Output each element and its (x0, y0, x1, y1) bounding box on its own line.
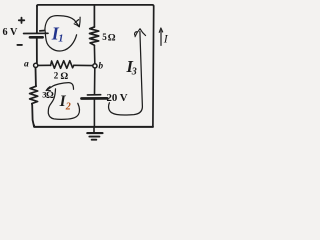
wire bottom rail to ground (93, 127, 95, 132)
wire bottom rail (34, 125, 153, 127)
current arrow I (top right) (160, 31, 162, 46)
battery 20V short plate (87, 94, 100, 96)
svg-text:2: 2 (54, 71, 59, 81)
loop arrow I3 head (135, 29, 146, 37)
loop arrow I2 body (48, 89, 79, 119)
wire right side (152, 6, 155, 126)
svg-text:a: a (24, 59, 29, 69)
svg-text:5: 5 (102, 32, 107, 42)
loop arrow I1 bottom arc (45, 32, 76, 51)
svg-text:3: 3 (131, 67, 137, 78)
wire node a to 2-ohm resistor (38, 64, 51, 66)
svg-text:b: b (98, 61, 103, 71)
svg-text:Ω: Ω (46, 90, 54, 101)
wire 5-ohm to node b (93, 45, 95, 63)
ground bar 2 (89, 136, 99, 138)
loop arrow I2 top edge (46, 83, 73, 91)
svg-text:20 V: 20 V (107, 92, 128, 104)
wire battery to node a (36, 38, 38, 63)
wire 3-ohm to bottom rail (32, 105, 34, 127)
current arrow I head (159, 28, 163, 32)
loop arrow I1 head (74, 17, 80, 27)
wire 2-ohm to node b (74, 64, 93, 66)
battery 6V short plate (30, 36, 43, 39)
wire node a to 3-ohm resistor (35, 68, 37, 87)
node a (34, 63, 38, 67)
plus sign of 6V source (19, 18, 25, 23)
svg-text:1: 1 (58, 34, 63, 45)
battery 20V long plate (82, 97, 108, 100)
svg-text:6 V: 6 V (3, 27, 18, 38)
minus sign of 6V source (17, 44, 22, 46)
node b (93, 64, 97, 68)
resistor 5-ohm zigzag (90, 27, 99, 45)
resistor 3-ohm zigzag (30, 86, 38, 105)
wire left top (battery to top rail) (36, 6, 38, 33)
ground bar 3 (92, 139, 97, 141)
loop arrow I3 (long up arrow with hook tail) (109, 32, 143, 115)
wire node b to 20V battery (94, 68, 96, 94)
ground bar 1 (87, 132, 102, 134)
resistor 2-ohm zigzag (51, 61, 74, 69)
wire top rail to 5-ohm resistor (93, 5, 95, 27)
loop arrow I1 top arc (45, 16, 79, 31)
wire 20V battery to bottom rail (93, 100, 95, 127)
svg-text:Ω: Ω (108, 32, 116, 43)
loop arrow I2 head (46, 87, 50, 91)
battery 6V long plate (24, 32, 48, 34)
loop arrow I1 tail dash (40, 30, 45, 32)
svg-text:Ω: Ω (60, 71, 68, 82)
svg-text:2: 2 (65, 102, 71, 113)
wire top rail (37, 5, 154, 6)
